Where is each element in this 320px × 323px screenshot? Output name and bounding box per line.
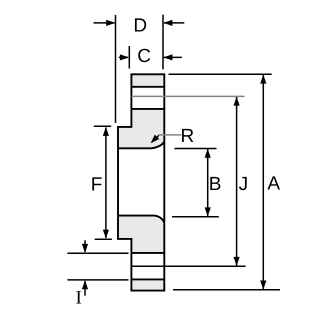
svg-text:F: F xyxy=(91,175,103,196)
svg-text:A: A xyxy=(267,174,280,195)
svg-text:D: D xyxy=(133,16,147,37)
svg-text:R: R xyxy=(181,126,195,147)
svg-text:I: I xyxy=(76,288,82,309)
svg-text:B: B xyxy=(209,174,222,195)
svg-text:C: C xyxy=(137,46,151,67)
svg-text:J: J xyxy=(239,174,249,195)
